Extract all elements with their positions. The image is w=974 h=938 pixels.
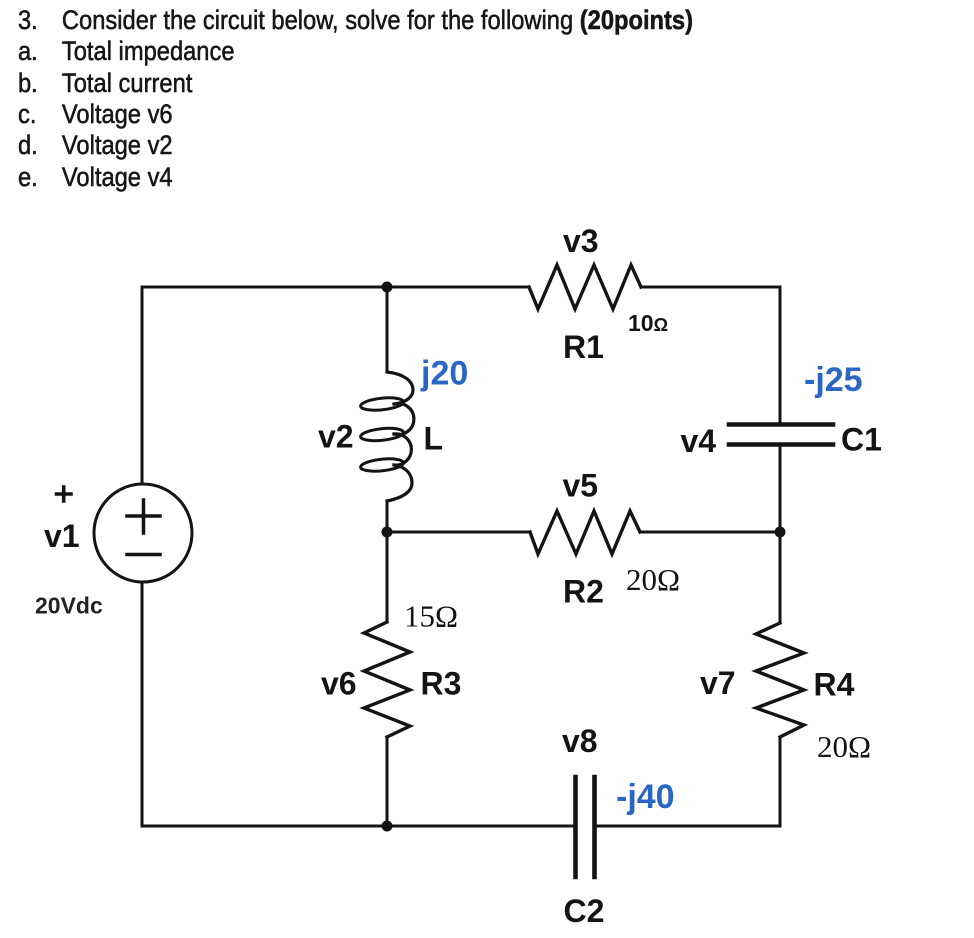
- wire left lower segment: [141, 582, 144, 826]
- svg-text:R2: R2: [563, 574, 604, 610]
- label C2: [564, 893, 605, 929]
- wire top-left segment: [142, 286, 387, 289]
- svg-text:10Ω: 10Ω: [628, 310, 668, 336]
- svg-text:C2: C2: [564, 893, 605, 929]
- capacitor C2 left plate: [573, 777, 578, 877]
- value 20ohm R2: [626, 562, 680, 597]
- wire top-middle segment: [387, 286, 529, 289]
- voltage source V1 circle: [94, 484, 192, 582]
- label R1: [563, 329, 604, 365]
- value 10ohm: [628, 310, 668, 336]
- value -j40: [616, 778, 675, 816]
- svg-text:v6: v6: [321, 666, 357, 702]
- label v8: [562, 723, 598, 759]
- label R2: [563, 574, 604, 610]
- label v6: [321, 666, 357, 702]
- inductor L loop ellipse 1: [360, 396, 404, 412]
- svg-text:v2: v2: [318, 419, 354, 455]
- svg-text:v8: v8: [562, 723, 598, 759]
- label v3: [563, 223, 599, 259]
- capacitor C1 top plate: [729, 422, 833, 427]
- label v1: [44, 518, 80, 554]
- svg-text:15Ω: 15Ω: [404, 599, 458, 634]
- svg-text:R1: R1: [563, 329, 604, 365]
- voltage source V1 plus sign: [127, 500, 160, 533]
- svg-text:20Vdc: 20Vdc: [35, 593, 103, 619]
- list item c: [18, 99, 173, 130]
- list item d: [18, 130, 173, 161]
- value -j25: [804, 361, 863, 399]
- wire right upper segment: [779, 287, 782, 423]
- junction node bottom: [382, 821, 393, 832]
- resistor R3 zigzag: [364, 622, 410, 737]
- value 15ohm: [404, 599, 458, 634]
- label C1: [841, 422, 882, 458]
- inductor L loop ellipse 3: [360, 457, 404, 473]
- label R4: [814, 667, 855, 703]
- label v5: [563, 468, 599, 504]
- inductor L coil scallops: [387, 372, 414, 501]
- label v7: [700, 665, 736, 701]
- label L: [424, 421, 444, 457]
- value 20ohm R4: [817, 729, 871, 764]
- wire right lower segment: [779, 737, 782, 826]
- problem statement line 1: [18, 5, 693, 36]
- junction node top: [382, 282, 393, 293]
- svg-text:v3: v3: [563, 223, 599, 259]
- label R3: [421, 666, 462, 702]
- list item e: [18, 162, 173, 193]
- list item b: [18, 68, 192, 99]
- wire middle horizontal left segment: [387, 531, 530, 534]
- voltage source V1 minus sign: [127, 553, 160, 557]
- svg-text:v1: v1: [44, 518, 80, 554]
- resistor R4 zigzag: [756, 623, 804, 737]
- polarity plus mark outside source: [57, 487, 72, 501]
- wire left upper segment: [141, 287, 144, 484]
- wire top-right segment: [641, 286, 780, 289]
- svg-text:-j25: -j25: [804, 361, 863, 399]
- label v2: [318, 419, 354, 455]
- capacitor C1 bottom plate: [729, 442, 833, 447]
- junction node middle-left: [382, 527, 393, 538]
- svg-text:R3: R3: [421, 666, 462, 702]
- svg-text:20Ω: 20Ω: [817, 729, 871, 764]
- wire middle vertical between node and R3: [386, 532, 389, 622]
- wire middle vertical below R3: [386, 737, 389, 826]
- svg-text:R4: R4: [814, 667, 855, 703]
- svg-text:v7: v7: [700, 665, 736, 701]
- list item a: [18, 36, 235, 67]
- wire middle vertical below inductor: [386, 501, 389, 532]
- resistor R1 zigzag: [529, 265, 641, 309]
- wire middle vertical upper (node to inductor): [386, 287, 389, 372]
- svg-text:C1: C1: [841, 422, 882, 458]
- svg-text:v5: v5: [563, 468, 599, 504]
- wire right middle segment: [779, 446, 782, 623]
- svg-text:j20: j20: [420, 355, 468, 393]
- wire bottom-right segment: [597, 825, 780, 828]
- junction node middle-right: [775, 527, 786, 538]
- inductor L loop ellipse 2: [360, 426, 404, 442]
- resistor R2 zigzag: [530, 511, 640, 554]
- svg-text:v4: v4: [681, 423, 717, 459]
- value j20: [420, 355, 468, 393]
- svg-text:L: L: [424, 421, 444, 457]
- capacitor C2 right plate: [592, 777, 597, 877]
- value 20Vdc: [35, 593, 103, 619]
- label v4: [681, 423, 717, 459]
- svg-text:20Ω: 20Ω: [626, 562, 680, 597]
- wire bottom-left segment: [142, 825, 573, 828]
- wire middle horizontal right segment: [640, 531, 780, 534]
- svg-text:-j40: -j40: [616, 778, 675, 816]
